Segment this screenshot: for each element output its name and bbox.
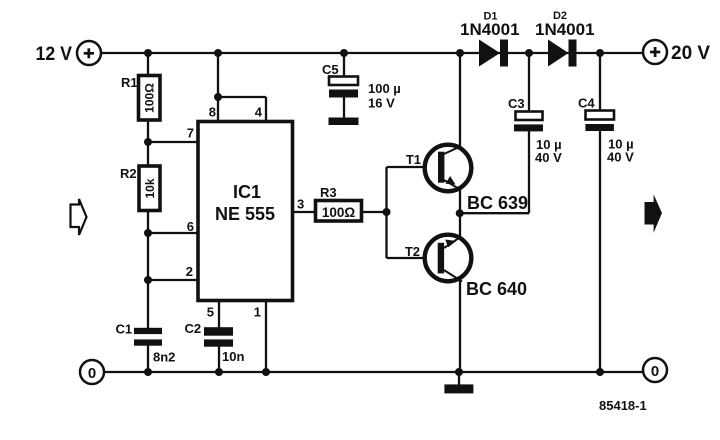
svg-text:1N4001: 1N4001	[535, 20, 595, 39]
svg-text:T1: T1	[406, 152, 421, 167]
svg-text:5: 5	[207, 305, 214, 320]
svg-text:R2: R2	[120, 166, 137, 181]
svg-text:NE 555: NE 555	[215, 204, 275, 224]
svg-text:8n2: 8n2	[153, 350, 175, 365]
svg-text:12 V: 12 V	[36, 44, 73, 65]
svg-text:BC 639: BC 639	[467, 193, 528, 213]
svg-text:100 µ: 100 µ	[368, 81, 401, 96]
svg-text:85418-1: 85418-1	[599, 398, 647, 413]
svg-text:3: 3	[297, 197, 304, 212]
svg-text:C2: C2	[185, 321, 202, 336]
svg-text:C4: C4	[578, 96, 595, 111]
svg-text:7: 7	[187, 126, 194, 141]
svg-text:IC1: IC1	[233, 182, 261, 202]
svg-text:C1: C1	[116, 322, 133, 337]
svg-text:0: 0	[88, 365, 96, 382]
svg-text:100Ω: 100Ω	[143, 83, 157, 113]
svg-text:BC 640: BC 640	[466, 279, 527, 299]
svg-text:40 V: 40 V	[607, 150, 634, 165]
svg-text:R3: R3	[320, 185, 337, 200]
svg-text:8: 8	[209, 105, 216, 120]
svg-text:0: 0	[651, 363, 659, 380]
svg-text:1: 1	[254, 305, 261, 320]
svg-text:4: 4	[255, 105, 263, 120]
svg-text:10n: 10n	[222, 349, 244, 364]
svg-text:100Ω: 100Ω	[322, 205, 356, 220]
svg-text:C3: C3	[508, 96, 525, 111]
svg-text:T2: T2	[405, 244, 420, 259]
svg-text:C5: C5	[322, 62, 339, 77]
svg-text:6: 6	[187, 219, 194, 234]
svg-text:1N4001: 1N4001	[460, 20, 520, 39]
svg-text:10k: 10k	[143, 178, 157, 198]
svg-text:40 V: 40 V	[535, 150, 562, 165]
svg-text:16 V: 16 V	[368, 96, 395, 111]
svg-text:20 V: 20 V	[671, 43, 710, 64]
svg-text:2: 2	[186, 264, 193, 279]
svg-text:R1: R1	[121, 75, 138, 90]
